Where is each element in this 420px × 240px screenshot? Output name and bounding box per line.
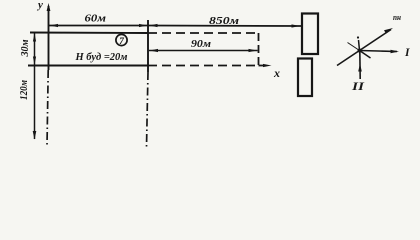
y-axis bbox=[47, 3, 51, 146]
wind rose ray N (short, dot above) bbox=[359, 40, 360, 51]
building 2 (bottom right rectangle) bbox=[298, 59, 312, 97]
svg-text:850м: 850м bbox=[209, 15, 240, 27]
svg-text:90м: 90м bbox=[191, 38, 211, 50]
svg-text:I: I bbox=[404, 47, 410, 59]
wind rose ray SE (short) bbox=[360, 51, 371, 59]
vertical line at right end of strip bbox=[147, 20, 149, 147]
svg-text:Н буд =20м: Н буд =20м bbox=[74, 52, 127, 63]
svg-text:пн: пн bbox=[393, 12, 401, 22]
dashed extension of top edge to the right bbox=[148, 32, 259, 34]
svg-text:у: у bbox=[36, 0, 43, 11]
wind rose bbox=[337, 28, 399, 79]
x-axis arrow bbox=[259, 64, 272, 67]
wind rose ray NW (thin) bbox=[348, 43, 360, 51]
dimension line 30m (vertical, left) bbox=[33, 33, 36, 66]
dimension line 850m (line B to building 1) bbox=[148, 24, 301, 28]
svg-text:II: II bbox=[351, 81, 365, 93]
building strip bottom edge bbox=[28, 65, 148, 67]
dimension line 60m (y-axis to line B) bbox=[49, 24, 148, 27]
wind rose ray S with up arrow (wind II) bbox=[359, 51, 361, 80]
svg-text:120м: 120м bbox=[19, 80, 30, 100]
svg-text:х: х bbox=[273, 66, 280, 80]
building strip top edge bbox=[30, 32, 148, 35]
wind rose diagonal SW-NE with arrow (north direction) bbox=[337, 30, 391, 66]
circled building number 7 bbox=[116, 34, 127, 47]
dimension line 120m (vertical, left) bbox=[33, 66, 37, 140]
svg-text:60м: 60м bbox=[85, 13, 107, 25]
dimension line 90m bbox=[149, 49, 258, 52]
dashed right edge of extended zone bbox=[258, 33, 260, 66]
wind rose center dot bbox=[358, 49, 362, 53]
dashed extension of bottom edge to the right bbox=[148, 65, 259, 67]
svg-text:30м: 30м bbox=[20, 39, 31, 57]
wind rose ray E with arrow (wind I) bbox=[360, 51, 398, 52]
building 1 (top right rectangle) bbox=[302, 14, 318, 55]
